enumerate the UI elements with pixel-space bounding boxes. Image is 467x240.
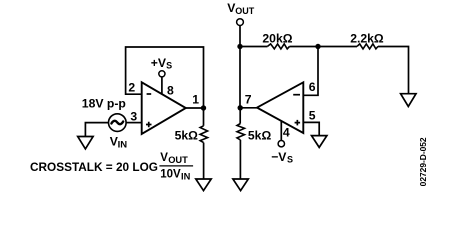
svg-text:V: V <box>160 152 168 164</box>
svg-text:20kΩ: 20kΩ <box>262 31 292 45</box>
svg-text:2: 2 <box>128 81 135 95</box>
svg-text:02729-D-052: 02729-D-052 <box>418 137 428 186</box>
svg-text:5kΩ: 5kΩ <box>248 129 272 143</box>
svg-text:8: 8 <box>167 84 174 98</box>
svg-text:18V p-p: 18V p-p <box>82 97 126 111</box>
svg-text:+V: +V <box>151 56 167 70</box>
svg-text:IN: IN <box>118 140 128 151</box>
svg-text:OUT: OUT <box>168 155 188 165</box>
svg-text:5kΩ: 5kΩ <box>175 129 199 143</box>
svg-text:4: 4 <box>283 126 290 140</box>
svg-text:7: 7 <box>245 92 252 106</box>
svg-text:S: S <box>287 155 293 165</box>
svg-text:CROSSTALK = 20 LOG: CROSSTALK = 20 LOG <box>30 160 158 174</box>
svg-text:10V: 10V <box>160 168 181 180</box>
svg-text:2.2kΩ: 2.2kΩ <box>350 31 384 45</box>
svg-text:−V: −V <box>271 150 287 164</box>
svg-text:6: 6 <box>309 80 316 94</box>
svg-text:5: 5 <box>309 109 316 123</box>
svg-text:1: 1 <box>192 92 199 106</box>
svg-text:S: S <box>166 61 172 71</box>
svg-text:IN: IN <box>181 172 191 182</box>
svg-text:3: 3 <box>130 109 137 123</box>
svg-text:OUT: OUT <box>235 6 255 16</box>
